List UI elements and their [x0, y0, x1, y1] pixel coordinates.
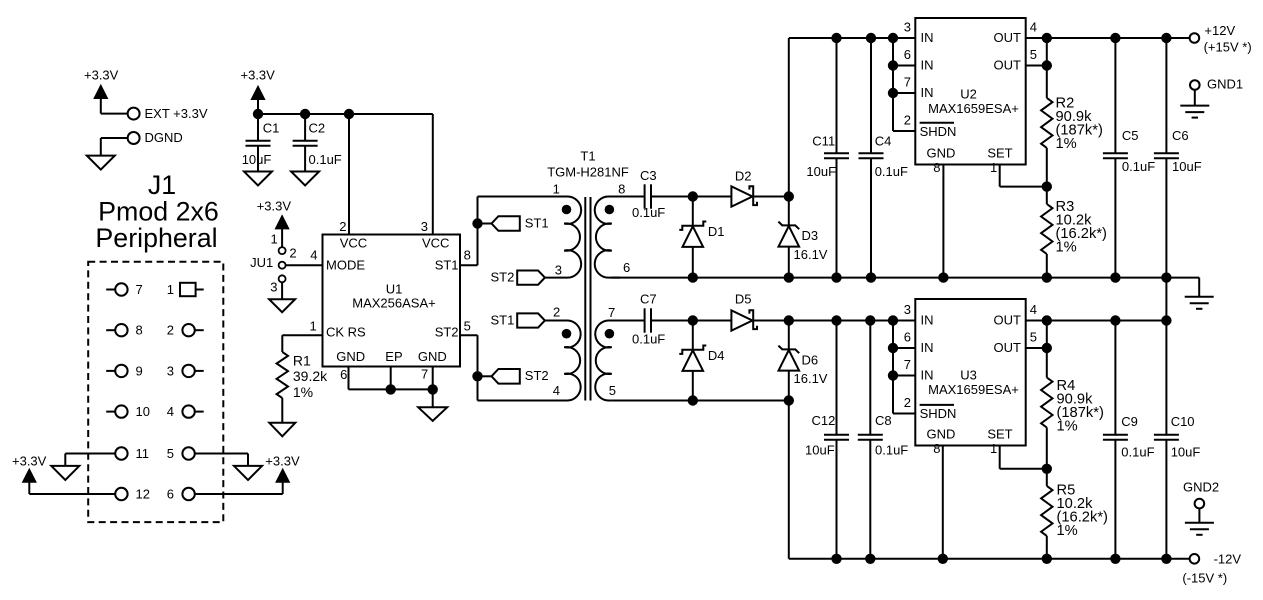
svg-text:9: 9	[136, 363, 143, 378]
svg-text:D4: D4	[708, 348, 725, 363]
svg-text:+3.3V: +3.3V	[241, 68, 276, 83]
svg-text:3: 3	[904, 20, 911, 35]
svg-text:5: 5	[167, 446, 174, 461]
power flag +3.3V (JU1)	[257, 199, 292, 229]
pin 8	[618, 182, 625, 197]
wire	[281, 229, 283, 247]
svg-text:0.1uF: 0.1uF	[875, 442, 908, 457]
jumper JU1 label	[250, 255, 273, 270]
svg-text:DGND: DGND	[145, 130, 183, 145]
capacitor C9	[1103, 321, 1155, 559]
svg-text:C4: C4	[875, 133, 892, 148]
node	[1042, 315, 1172, 325]
jumper JU1 pin 1	[270, 232, 285, 255]
wire	[788, 401, 790, 559]
ground (pin 5)	[234, 466, 262, 480]
jumper JU1 pin 3	[270, 275, 285, 294]
J1 pin 9	[106, 363, 143, 378]
svg-text:7: 7	[136, 282, 143, 297]
pin +12V	[1190, 23, 1252, 54]
svg-text:C12: C12	[812, 413, 836, 428]
svg-text:8: 8	[136, 323, 143, 338]
wire	[1026, 320, 1167, 322]
node	[688, 191, 698, 201]
ground (mid rail)	[1185, 297, 1214, 309]
svg-text:D2: D2	[735, 169, 752, 184]
svg-text:0.1uF: 0.1uF	[1121, 445, 1154, 460]
svg-text:4: 4	[1030, 20, 1037, 35]
U3 pin numbers	[904, 302, 1037, 456]
node	[784, 315, 794, 325]
svg-text:IN: IN	[921, 313, 934, 328]
diode D6 (zener 16.1V)	[778, 321, 827, 401]
svg-text:7: 7	[608, 305, 615, 320]
svg-text:C11: C11	[812, 133, 835, 148]
pin GND1	[1190, 77, 1243, 92]
svg-text:6: 6	[340, 367, 347, 382]
svg-text:8: 8	[933, 441, 940, 456]
svg-text:10: 10	[136, 404, 150, 419]
svg-text:2: 2	[339, 219, 346, 234]
svg-text:0.1uF: 0.1uF	[632, 205, 665, 220]
J1 pin 3	[167, 363, 204, 378]
ground (C1)	[244, 172, 272, 186]
transformer T1 core	[585, 197, 590, 401]
wire	[1194, 90, 1196, 106]
capacitor C6	[1154, 38, 1202, 278]
wire	[460, 335, 478, 400]
svg-text:6: 6	[623, 260, 630, 275]
svg-text:1%: 1%	[1057, 419, 1078, 435]
net tag ST2 (bottom)	[478, 368, 549, 383]
svg-text:4: 4	[553, 383, 560, 398]
svg-text:IN: IN	[921, 368, 934, 383]
wire	[29, 482, 115, 494]
svg-text:2: 2	[167, 323, 174, 338]
ground (GND2)	[1185, 523, 1214, 535]
wire	[693, 196, 789, 198]
J1 pin 2	[167, 323, 204, 338]
pin 4	[553, 383, 560, 398]
capacitor C1	[242, 114, 280, 172]
wire	[1046, 254, 1048, 278]
net tag ST1 (winding pin 2)	[490, 313, 544, 328]
svg-text:VCC: VCC	[422, 236, 449, 251]
svg-text:OUT: OUT	[994, 340, 1022, 355]
capacitor C10	[1154, 321, 1200, 559]
svg-text:-12V: -12V	[1214, 551, 1242, 566]
capacitor C12	[805, 321, 849, 559]
svg-text:8: 8	[464, 248, 471, 263]
J1 pin 12	[115, 486, 150, 501]
pin 7	[608, 305, 615, 320]
svg-text:JU1: JU1	[250, 255, 273, 270]
wire	[1000, 446, 1047, 469]
wire	[1026, 37, 1190, 39]
node	[888, 343, 898, 381]
node	[472, 218, 482, 228]
svg-text:1: 1	[990, 160, 997, 175]
svg-text:3: 3	[555, 263, 562, 278]
svg-text:5: 5	[464, 318, 471, 333]
J1 pin 1	[167, 282, 204, 297]
capacitor C5	[1103, 38, 1155, 278]
jumper JU1 pin 2	[279, 246, 297, 269]
wire (ground rail)	[611, 278, 1199, 297]
svg-text:IN: IN	[921, 85, 934, 100]
capacitor C3	[632, 168, 665, 220]
resistor R2	[1041, 96, 1103, 153]
wire	[101, 138, 128, 156]
svg-text:1%: 1%	[1057, 523, 1078, 539]
diode D5	[731, 292, 757, 331]
svg-text:ST2: ST2	[435, 325, 459, 340]
svg-text:MAX1659ESA+: MAX1659ESA+	[928, 101, 1019, 116]
svg-text:7: 7	[904, 75, 911, 90]
wire	[64, 454, 66, 466]
svg-text:1: 1	[167, 282, 174, 297]
svg-text:GND: GND	[927, 146, 956, 161]
node	[831, 554, 1171, 564]
wire	[281, 398, 283, 423]
resistor R4	[1041, 378, 1104, 435]
svg-text:4: 4	[167, 404, 174, 419]
svg-text:6: 6	[904, 47, 911, 62]
svg-text:7: 7	[904, 357, 911, 372]
svg-text:EXT +3.3V: EXT +3.3V	[145, 106, 208, 121]
svg-text:0.1uF: 0.1uF	[632, 332, 665, 347]
wire	[893, 321, 915, 414]
svg-text:(-15V *): (-15V *)	[1182, 570, 1227, 585]
svg-text:1: 1	[553, 182, 560, 197]
net tag ST2 (winding pin 3)	[490, 269, 544, 284]
svg-text:5: 5	[1030, 47, 1037, 62]
node	[784, 191, 794, 201]
svg-text:8: 8	[618, 182, 625, 197]
J1 pin 5	[167, 446, 248, 461]
U1 pin numbers	[309, 219, 470, 382]
svg-text:SHDN: SHDN	[920, 406, 957, 421]
svg-text:1: 1	[990, 441, 997, 456]
op-amp U1 body	[323, 235, 461, 367]
pin -12V	[1182, 551, 1241, 585]
wire	[282, 335, 322, 352]
svg-text:2: 2	[289, 246, 296, 261]
pin 5	[609, 383, 616, 398]
transformer T1 secondary winding 7-5	[595, 320, 644, 400]
svg-text:10uF: 10uF	[1171, 445, 1201, 460]
svg-text:+12V: +12V	[1204, 23, 1235, 38]
svg-text:+3.3V: +3.3V	[265, 454, 300, 469]
svg-text:C5: C5	[1122, 128, 1139, 143]
svg-text:TGM-H281NF: TGM-H281NF	[547, 165, 629, 180]
svg-text:3: 3	[270, 279, 277, 294]
svg-text:Peripheral: Peripheral	[95, 223, 217, 253]
resistor R3	[1041, 199, 1107, 256]
wire	[789, 38, 916, 197]
wire	[1165, 278, 1167, 321]
svg-text:ST2: ST2	[525, 368, 549, 383]
J1 pin 8	[106, 323, 143, 338]
J1 pin 4	[167, 404, 204, 419]
svg-text:IN: IN	[921, 30, 934, 45]
ground (GND1)	[1180, 106, 1209, 118]
svg-text:1%: 1%	[1056, 136, 1077, 152]
svg-text:D1: D1	[708, 224, 725, 239]
svg-text:D5: D5	[735, 292, 752, 307]
power flag +3.3V (pin 12)	[12, 454, 47, 483]
power flag +3.3V (EXT)	[84, 68, 119, 99]
svg-text:3: 3	[167, 363, 174, 378]
capacitor C4	[859, 38, 909, 278]
pin GND2	[1183, 480, 1219, 509]
svg-text:GND: GND	[336, 349, 365, 364]
svg-text:ST1: ST1	[490, 313, 514, 328]
svg-text:8: 8	[933, 160, 940, 175]
svg-text:11: 11	[136, 446, 150, 461]
svg-text:C3: C3	[640, 168, 657, 183]
wire	[893, 38, 915, 131]
wire	[1026, 347, 1047, 349]
wire	[195, 482, 283, 494]
node	[253, 109, 354, 119]
svg-text:2: 2	[904, 113, 911, 128]
U2 pin numbers	[904, 20, 1037, 176]
diode D3 (zener 16.1V)	[778, 197, 827, 278]
regulator U2 body	[915, 18, 1025, 165]
wire	[349, 367, 433, 390]
pin 2	[553, 304, 560, 319]
svg-text:U2: U2	[960, 87, 977, 102]
node	[472, 371, 482, 381]
svg-text:0.1uF: 0.1uF	[1122, 159, 1155, 174]
node	[1042, 343, 1052, 353]
node	[831, 315, 898, 325]
svg-text:1%: 1%	[1056, 240, 1077, 256]
svg-text:GND1: GND1	[1207, 77, 1243, 92]
node	[831, 33, 898, 43]
node	[688, 315, 698, 325]
wire	[432, 389, 434, 407]
node	[888, 60, 898, 98]
wire	[432, 114, 434, 235]
svg-text:1: 1	[309, 318, 316, 333]
wire	[286, 264, 323, 266]
capacitor C2	[293, 114, 342, 172]
svg-text:D6: D6	[802, 353, 819, 368]
resistor R1	[277, 352, 329, 400]
wire	[651, 196, 693, 198]
wire	[281, 282, 283, 299]
svg-text:0.1uF: 0.1uF	[309, 152, 342, 167]
wire	[693, 320, 789, 322]
transformer T1 primary winding 1-3	[478, 196, 582, 277]
wire	[789, 320, 916, 322]
transformer T1 secondary winding 8-6	[595, 196, 644, 277]
svg-text:ST1: ST1	[525, 216, 549, 231]
node	[1042, 60, 1052, 70]
wire	[1198, 508, 1200, 522]
J1 pin 11	[65, 446, 149, 461]
svg-text:MAX1659ESA+: MAX1659ESA+	[928, 382, 1019, 397]
ground (DGND)	[87, 156, 115, 170]
svg-text:6: 6	[904, 330, 911, 345]
node	[1042, 33, 1172, 43]
svg-text:C6: C6	[1172, 128, 1189, 143]
svg-text:4: 4	[310, 248, 317, 263]
diode D2	[731, 169, 757, 207]
capacitor C7	[632, 292, 665, 347]
svg-text:SET: SET	[987, 427, 1012, 442]
diode D1	[679, 197, 724, 278]
svg-text:C9: C9	[1121, 414, 1138, 429]
wire	[651, 320, 693, 322]
svg-text:16.1V: 16.1V	[794, 247, 828, 262]
node	[1042, 464, 1052, 474]
svg-text:1: 1	[270, 232, 277, 247]
svg-text:SHDN: SHDN	[920, 124, 957, 139]
svg-text:GND2: GND2	[1183, 480, 1219, 495]
svg-text:+3.3V: +3.3V	[12, 454, 47, 469]
svg-text:10uF: 10uF	[805, 442, 835, 457]
svg-text:T1: T1	[580, 149, 595, 164]
U2 labels	[920, 30, 1021, 161]
connector J1 title	[95, 170, 218, 253]
svg-text:ST1: ST1	[435, 257, 459, 272]
wire	[1046, 148, 1048, 204]
ground (JU1)	[269, 299, 295, 312]
node	[1042, 181, 1052, 191]
svg-text:3: 3	[904, 302, 911, 317]
node	[386, 384, 438, 394]
svg-text:4: 4	[1030, 302, 1037, 317]
diode D4	[679, 321, 724, 401]
wire	[247, 454, 249, 466]
power flag +3.3V (C1 rail)	[241, 68, 276, 100]
capacitor C11	[806, 38, 849, 278]
wire	[1046, 428, 1048, 486]
svg-text:10uF: 10uF	[1172, 159, 1202, 174]
svg-text:10uF: 10uF	[806, 164, 836, 179]
net tag ST1 (top)	[478, 216, 549, 231]
ground (C2)	[291, 172, 319, 186]
transformer T1 label	[547, 149, 629, 180]
svg-text:1%: 1%	[293, 384, 313, 400]
ground (pin 11)	[51, 466, 79, 480]
svg-text:+3.3V: +3.3V	[84, 68, 119, 83]
svg-text:ST2: ST2	[490, 269, 514, 284]
svg-text:2: 2	[553, 304, 560, 319]
svg-text:IN: IN	[921, 58, 934, 73]
svg-text:CK RS: CK RS	[326, 325, 366, 340]
pin 1	[553, 182, 560, 197]
J1 pin 10	[106, 404, 150, 419]
svg-text:39.2k: 39.2k	[293, 368, 328, 384]
connector J1 body	[88, 262, 223, 522]
svg-text:MODE: MODE	[326, 257, 365, 272]
pin 3	[555, 263, 562, 278]
svg-text:U1: U1	[386, 281, 403, 296]
svg-text:(+15V *): (+15V *)	[1204, 39, 1252, 54]
wire	[1026, 65, 1047, 67]
svg-text:7: 7	[421, 367, 428, 382]
svg-text:C7: C7	[640, 292, 657, 307]
svg-text:IN: IN	[921, 340, 934, 355]
U3 labels	[920, 313, 1021, 442]
resistor R5	[1041, 483, 1108, 540]
svg-text:10uF: 10uF	[242, 152, 272, 167]
wire	[348, 114, 350, 235]
svg-text:GND: GND	[927, 427, 956, 442]
wire	[258, 100, 433, 115]
svg-text:J1: J1	[148, 170, 176, 200]
U1 labels	[326, 236, 459, 365]
wire	[1046, 321, 1048, 378]
svg-text:R1: R1	[293, 353, 311, 369]
svg-text:GND: GND	[418, 349, 447, 364]
svg-text:C1: C1	[263, 120, 280, 135]
svg-text:D3: D3	[802, 228, 819, 243]
svg-text:2: 2	[904, 395, 911, 410]
ground (R1)	[269, 423, 295, 437]
svg-text:SET: SET	[987, 146, 1012, 161]
capacitor C8	[858, 321, 909, 559]
J1 pin 6	[167, 486, 195, 501]
wire	[942, 165, 944, 278]
svg-text:OUT: OUT	[994, 30, 1022, 45]
svg-text:VCC: VCC	[340, 236, 367, 251]
wire	[101, 98, 128, 114]
svg-text:C10: C10	[1171, 414, 1195, 429]
node	[688, 395, 794, 405]
svg-text:0.1uF: 0.1uF	[875, 164, 908, 179]
pin 6	[623, 260, 630, 275]
wire	[942, 446, 944, 559]
svg-text:+3.3V: +3.3V	[257, 199, 292, 214]
wire	[1000, 165, 1047, 187]
svg-text:C2: C2	[309, 120, 326, 135]
pin EXT +3.3V	[128, 106, 208, 121]
regulator U3 body	[915, 299, 1025, 446]
svg-text:MAX256ASA+: MAX256ASA+	[352, 296, 435, 311]
svg-text:6: 6	[167, 486, 174, 501]
transformer T1 primary winding 2-4	[478, 320, 581, 400]
wire	[1046, 536, 1048, 559]
svg-text:5: 5	[1030, 330, 1037, 345]
pin DGND	[128, 130, 183, 145]
svg-text:3: 3	[421, 219, 428, 234]
J1 pin 7	[106, 282, 143, 297]
svg-text:C8: C8	[875, 413, 892, 428]
svg-text:5: 5	[609, 383, 616, 398]
node	[688, 272, 1172, 282]
power flag +3.3V (pin 6)	[265, 454, 300, 483]
svg-text:OUT: OUT	[994, 313, 1022, 328]
ground (U1 GND)	[418, 407, 447, 421]
wire (T1 pin5 rail)	[611, 400, 789, 402]
svg-text:16.1V: 16.1V	[794, 371, 828, 386]
svg-text:12: 12	[136, 486, 150, 501]
wire	[460, 197, 478, 266]
svg-text:U3: U3	[960, 368, 977, 383]
wire	[1046, 38, 1048, 98]
svg-text:EP: EP	[385, 349, 402, 364]
svg-text:OUT: OUT	[994, 58, 1022, 73]
wire (bottom rail)	[789, 558, 1190, 560]
